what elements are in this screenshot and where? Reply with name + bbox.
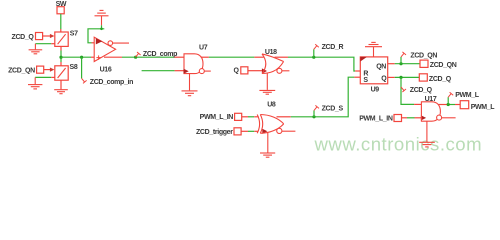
ground (U16 top, inverted) — [95, 10, 109, 25]
junction ZCD_comp — [134, 56, 137, 59]
or-gate U18 — [262, 49, 289, 73]
arrow U8 in2 — [262, 129, 267, 134]
ground (U8 bottom) — [260, 133, 275, 157]
svg-text:QN: QN — [376, 64, 386, 71]
svg-text:ZCD_S: ZCD_S — [322, 105, 344, 112]
switch S8 — [55, 64, 78, 80]
ground (U17 bottom) — [419, 121, 435, 147]
port ZCD_QN (left) — [8, 66, 44, 74]
wire S7 lower-left to ground — [35, 43, 51, 45]
wire U8 out (ZCD_S net) — [277, 116, 291, 118]
wire U16 ground to feedback loop — [88, 29, 104, 43]
and-gate U7 — [184, 45, 211, 74]
op-amp U16 — [94, 37, 129, 73]
junction PWM_L — [447, 103, 450, 106]
svg-text:PWM_L: PWM_L — [471, 104, 496, 111]
ground (S8 left) — [28, 77, 42, 89]
svg-text:S: S — [363, 77, 368, 84]
port PWM_L_IN (right) — [359, 115, 401, 123]
wire bus to U16 plus input — [61, 56, 91, 58]
wire U18 out (ZCD_R net) — [275, 56, 289, 58]
wire ZCD_QN port to S8 control — [44, 69, 50, 71]
pin S8 top — [60, 62, 62, 66]
flip-flop U9 — [360, 57, 387, 94]
svg-text:U18: U18 — [265, 49, 277, 56]
pin U9 S — [354, 76, 360, 78]
net label ZCD_S — [314, 105, 343, 117]
wire U17 out (PWM_L net) — [438, 104, 447, 106]
net label ZCD_QN — [401, 52, 437, 64]
switch S7 — [55, 31, 78, 47]
ground (U18 bottom) — [259, 74, 275, 95]
pin U16 minus — [92, 42, 95, 44]
svg-text:ZCD_Q: ZCD_Q — [429, 76, 452, 83]
net label PWM_L — [448, 92, 480, 105]
svg-text:ZCD_comp_in: ZCD_comp_in — [90, 79, 133, 86]
wire S7-S8 vertical — [60, 51, 62, 63]
svg-text:Q: Q — [233, 68, 239, 75]
svg-text:ZCD_trigger: ZCD_trigger — [196, 129, 233, 136]
port Q — [233, 67, 247, 75]
port PWM_L (right) — [460, 101, 495, 111]
pin S7 bottom — [60, 46, 62, 50]
svg-text:U9: U9 — [371, 87, 380, 94]
svg-text:PWM_L_IN: PWM_L_IN — [359, 115, 393, 122]
wire SW to S7 — [60, 14, 62, 29]
wire U9 QN out — [388, 63, 395, 65]
wire PWM_L_IN to U8 in1 — [242, 116, 248, 118]
arrow U18 in2 — [262, 68, 267, 73]
svg-text:ZCD_Q: ZCD_Q — [12, 34, 35, 41]
wire PWM_L_IN to U17 in2 — [402, 117, 408, 119]
wire U7 out — [201, 56, 209, 58]
net label ZCD_comp_in — [82, 78, 133, 86]
pin U17 in1 — [414, 103, 421, 105]
junction ZCD_R — [312, 56, 315, 59]
xor-gate U8 — [257, 102, 295, 134]
svg-text:ZCD_QN: ZCD_QN — [8, 67, 35, 74]
port PWM_L_IN (left) — [200, 113, 242, 121]
pin U9 R — [355, 70, 360, 72]
svg-text:S7: S7 — [70, 31, 78, 38]
port ZCD_Q (right) — [419, 74, 451, 83]
ground (U9 top, inverted) — [365, 42, 382, 57]
wire U7 in2 (stub net) — [142, 70, 175, 72]
junction comp_in tap — [80, 56, 83, 59]
wire ZCD_Q port to S7 control — [43, 35, 50, 37]
wire ZCD_Q down to U17 in1 — [401, 77, 414, 104]
junction bus — [59, 56, 62, 59]
net label ZCD_comp — [136, 51, 178, 58]
watermark www.cntronics.com — [314, 133, 483, 154]
svg-text:PWM_L: PWM_L — [455, 92, 480, 99]
svg-text:PWM_L_IN: PWM_L_IN — [200, 114, 234, 121]
wire tap down to ZCD_comp_in — [81, 57, 83, 78]
arrow U17 in2 — [421, 115, 426, 120]
junction ZCD_Q — [399, 76, 402, 79]
svg-text:ZCD_R: ZCD_R — [322, 44, 344, 51]
port SW — [56, 1, 67, 14]
port ZCD_Q (left) — [12, 33, 43, 41]
pin S7 top — [60, 29, 62, 32]
svg-text:U7: U7 — [199, 45, 208, 52]
ground (S7 left) — [29, 44, 43, 54]
wire ZCD_trigger to U8 in2 — [241, 130, 248, 132]
svg-text:Q: Q — [381, 76, 387, 83]
wire Q port to U18 in2 — [248, 70, 262, 72]
ground (S8 bottom) — [54, 90, 68, 94]
wire U9 Q out — [388, 76, 395, 78]
svg-text:ZCD_comp: ZCD_comp — [143, 51, 177, 58]
svg-text:S8: S8 — [70, 64, 78, 71]
port ZCD_trigger — [196, 128, 241, 136]
and-gate U17 — [421, 96, 455, 121]
svg-text:ZCD_Q: ZCD_Q — [410, 87, 433, 94]
wire S8 lower-left to ground — [35, 76, 51, 78]
svg-text:ZCD_QN: ZCD_QN — [430, 62, 457, 69]
junction ZCD_S — [312, 115, 315, 118]
pin U7 in1 — [175, 56, 185, 58]
net label ZCD_R — [314, 44, 344, 57]
pin S8 bottom to ground — [60, 80, 62, 89]
port ZCD_QN (right) — [420, 60, 457, 69]
pin U7 in2 — [175, 70, 184, 72]
wire U16 output — [104, 56, 122, 58]
junction ZCD_QN — [399, 62, 402, 65]
svg-text:U16: U16 — [100, 66, 112, 73]
arrow S7 control input — [50, 34, 55, 38]
svg-text:U8: U8 — [267, 102, 276, 109]
net label ZCD_Q — [401, 87, 433, 94]
pin U18 in1 — [254, 56, 263, 58]
svg-text:www.cntronics.com: www.cntronics.com — [314, 133, 483, 154]
ground (U7 bottom) — [182, 74, 198, 96]
svg-text:U17: U17 — [425, 96, 437, 103]
svg-text:ZCD_QN: ZCD_QN — [410, 52, 437, 59]
arrow S8 control input — [50, 68, 55, 72]
